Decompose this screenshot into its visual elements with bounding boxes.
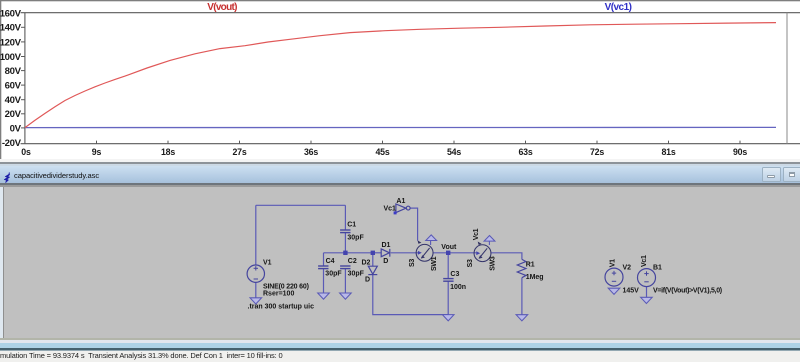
plot pane top border — [21, 12, 800, 14]
svg-text:30pF: 30pF — [348, 271, 365, 278]
junction node at D2/bus — [371, 251, 375, 255]
wire V1 top horizontal — [256, 204, 346, 206]
svg-text:20V: 20V — [5, 109, 22, 120]
svg-text:18s: 18s — [161, 147, 175, 157]
capacitor C4 — [318, 266, 328, 269]
svg-text:100V: 100V — [0, 52, 22, 63]
svg-text:45s: 45s — [375, 147, 389, 157]
switch1 control + arrow — [418, 240, 422, 243]
svg-text:C4: C4 — [326, 258, 335, 265]
svg-text:C2: C2 — [348, 258, 357, 265]
svg-text:D: D — [383, 258, 388, 265]
window outer border left — [0, 0, 1, 159]
voltage source V2 — [605, 268, 623, 286]
svg-text:R1: R1 — [526, 262, 535, 269]
svg-text:-20V: -20V — [2, 138, 22, 149]
wire C3 bottom lead — [447, 282, 449, 315]
wire A1 output to switch control — [410, 208, 417, 241]
window title text — [14, 171, 99, 180]
SCHEMATIC SVG — [4, 185, 800, 336]
svg-text:Rser=100: Rser=100 — [263, 291, 294, 298]
svg-text:D1: D1 — [382, 242, 391, 249]
svg-text:A1: A1 — [396, 198, 405, 205]
svg-text:.tran 300 startup uic: .tran 300 startup uic — [248, 304, 315, 311]
svg-text:V2: V2 — [623, 265, 632, 272]
svg-text:27s: 27s — [232, 147, 246, 157]
svg-text:160V: 160V — [0, 9, 22, 20]
switch S3 (SW5) — [416, 245, 433, 262]
svg-text:1Meg: 1Meg — [526, 274, 544, 281]
ground under V2 — [608, 288, 620, 294]
capacitor C1 — [340, 230, 350, 233]
junction node at C1/C2/bus — [343, 251, 347, 255]
svg-text:0V: 0V — [10, 123, 22, 134]
svg-text:100n: 100n — [450, 284, 466, 291]
svg-text:V(vc1): V(vc1) — [605, 2, 632, 13]
switch S3 (SW3) — [474, 245, 491, 262]
y axis labels — [0, 9, 22, 149]
separator below plot window — [0, 159, 800, 162]
wire R1 bottom to ground — [521, 278, 523, 315]
wire C2 bottom lead — [344, 269, 346, 293]
svg-text:V1: V1 — [263, 260, 272, 267]
svg-text:120V: 120V — [0, 37, 22, 48]
svg-text:S3: S3 — [467, 259, 474, 267]
svg-text:SW1: SW1 — [431, 257, 438, 272]
svg-text:SINE(0 220 60): SINE(0 220 60) — [263, 284, 309, 291]
svg-text:V(vout): V(vout) — [207, 2, 237, 13]
schematic window left frame — [0, 187, 3, 338]
wire V1 bottom to ground — [255, 282, 257, 298]
svg-text:145V: 145V — [623, 288, 640, 295]
wire C1 bottom lead — [344, 233, 346, 253]
y axis ticks — [21, 27, 25, 128]
x axis labels — [21, 147, 747, 157]
ground under V1 — [250, 298, 262, 304]
ground under B1 — [641, 297, 653, 303]
svg-text:V=if(V(Vout)>V(V1),5,0): V=if(V(Vout)>V(V1),5,0) — [653, 288, 722, 295]
svg-text:SW3: SW3 — [490, 256, 497, 271]
svg-text:Vout: Vout — [441, 244, 457, 251]
svg-text:C3: C3 — [450, 271, 459, 278]
ground under C4 — [318, 293, 330, 299]
wire bus C4 to D2 — [324, 252, 374, 254]
switch1 left pin arrow — [418, 251, 422, 255]
wire C1 top lead — [344, 205, 346, 230]
svg-text:D2: D2 — [362, 260, 371, 267]
ground under C2 — [340, 293, 352, 299]
x axis ticks — [97, 141, 741, 144]
svg-text:Vc1: Vc1 — [473, 229, 480, 241]
ground at C3/rail — [442, 315, 454, 321]
svg-text:9s: 9s — [92, 147, 102, 157]
wire B1 bottom to ground — [646, 287, 648, 297]
schematic canvas — [0, 187, 800, 338]
wire D1 cathode to switch1 — [391, 252, 418, 254]
net flag (up ground) at switch2 — [484, 236, 495, 246]
wire C3 top lead — [447, 253, 449, 279]
behavioral inverter A1 — [396, 204, 410, 213]
switch2 left pin arrow — [476, 251, 480, 255]
wire switch2 to R1 — [491, 253, 522, 260]
window outer border top — [0, 0, 800, 1]
wire V1 top vertical — [255, 205, 257, 265]
diode D1 — [381, 249, 390, 257]
waveform plot window — [0, 0, 800, 159]
svg-text:D: D — [365, 277, 370, 284]
wire C4 bottom lead — [323, 269, 325, 293]
junction node Vout — [446, 251, 450, 255]
trace V(vout) red curve — [25, 23, 776, 128]
voltage source V1 — [247, 265, 264, 282]
wire switch1 right to switch2 — [433, 252, 477, 254]
svg-text:30pF: 30pF — [347, 235, 364, 242]
svg-text:C1: C1 — [347, 222, 356, 229]
svg-text:36s: 36s — [304, 147, 318, 157]
plot pane right border — [786, 13, 788, 144]
svg-text:54s: 54s — [447, 147, 461, 157]
svg-text:72s: 72s — [590, 147, 604, 157]
svg-text:30pF: 30pF — [325, 271, 342, 278]
svg-text:40V: 40V — [5, 95, 22, 106]
capacitor C3 — [443, 279, 453, 282]
title bar bottom border — [0, 183, 800, 185]
diode D2 — [368, 266, 377, 274]
wire D2 top lead — [372, 253, 374, 266]
maximize button — [783, 167, 800, 182]
schematic window title bar — [0, 166, 800, 184]
svg-text:0s: 0s — [21, 147, 31, 157]
capacitor C2 — [340, 266, 350, 269]
resistor R1 — [517, 260, 526, 278]
svg-text:90s: 90s — [733, 147, 747, 157]
wire D1 anode lead — [373, 252, 381, 254]
svg-text:S3: S3 — [409, 259, 416, 267]
wire C4 top lead — [323, 253, 325, 266]
svg-text:60V: 60V — [5, 81, 22, 92]
svg-text:V1: V1 — [610, 259, 617, 267]
ground under R1 — [516, 315, 528, 321]
status bar — [0, 351, 800, 362]
svg-text:Vc1: Vc1 — [384, 206, 397, 213]
svg-text:80V: 80V — [5, 66, 22, 77]
schematic window frame top strip — [0, 164, 800, 165]
svg-text:140V: 140V — [0, 23, 22, 34]
net flag (up ground) at switch1 — [426, 235, 437, 245]
trace V(vc1) blue flat line — [25, 126, 776, 128]
switch2 control + arrow — [478, 242, 482, 245]
svg-text:81s: 81s — [661, 147, 675, 157]
plot pane bottom border — [21, 143, 800, 145]
svg-text:Vc1: Vc1 — [641, 255, 648, 267]
svg-text:B1: B1 — [653, 265, 662, 272]
minimize button — [762, 167, 782, 182]
svg-text:63s: 63s — [518, 147, 532, 157]
plot pane left axis — [24, 13, 26, 144]
wire D2 bottom to rail — [373, 275, 448, 315]
LTspice app icon — [3, 172, 13, 183]
schematic window bottom border — [0, 338, 800, 340]
behavioral source B1 — [638, 269, 656, 287]
